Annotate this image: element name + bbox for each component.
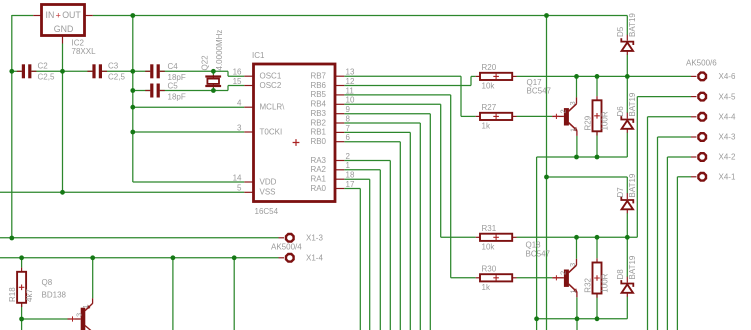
svg-text:100R: 100R	[601, 111, 610, 130]
svg-text:6: 6	[346, 133, 351, 142]
svg-text:C2,5: C2,5	[38, 73, 55, 82]
svg-text:D8: D8	[616, 269, 625, 280]
svg-text:Q8: Q8	[42, 278, 53, 287]
svg-text:Q18: Q18	[526, 241, 542, 250]
svg-text:10k: 10k	[482, 242, 496, 251]
svg-text:18pF: 18pF	[168, 93, 186, 102]
svg-text:BC547: BC547	[527, 87, 552, 96]
svg-text:4.0000MHz: 4.0000MHz	[215, 30, 224, 71]
svg-text:12: 12	[346, 77, 355, 86]
svg-text:BAT19: BAT19	[628, 13, 637, 37]
svg-text:OUT: OUT	[62, 10, 81, 20]
svg-text:BAT19: BAT19	[628, 92, 637, 116]
svg-text:VSS: VSS	[260, 188, 276, 197]
svg-text:R30: R30	[482, 264, 497, 273]
svg-text:3: 3	[568, 263, 577, 267]
svg-text:RA2: RA2	[310, 165, 326, 174]
svg-text:R32: R32	[584, 277, 593, 292]
svg-text:X4-4: X4-4	[719, 113, 736, 122]
svg-text:C4: C4	[168, 62, 179, 71]
svg-text:RB5: RB5	[310, 90, 326, 99]
svg-text:IC1: IC1	[252, 51, 265, 60]
svg-text:1: 1	[569, 289, 578, 293]
svg-text:X4-3: X4-3	[719, 133, 736, 142]
svg-text:X4-2: X4-2	[719, 153, 736, 162]
svg-text:RB1: RB1	[310, 128, 326, 137]
svg-text:C2,5: C2,5	[108, 73, 125, 82]
svg-text:X1-4: X1-4	[306, 254, 323, 263]
svg-text:IN: IN	[46, 10, 55, 20]
svg-text:T0CKI: T0CKI	[260, 127, 283, 136]
svg-text:D6: D6	[616, 106, 625, 117]
svg-text:D7: D7	[616, 187, 625, 198]
svg-text:VDD: VDD	[260, 177, 277, 186]
svg-text:Q22: Q22	[201, 55, 210, 71]
svg-text:13: 13	[346, 68, 355, 77]
svg-text:17: 17	[346, 180, 355, 189]
svg-text:9: 9	[346, 105, 351, 114]
svg-text:AK500/6: AK500/6	[686, 59, 717, 68]
svg-text:2: 2	[559, 271, 568, 275]
svg-text:BD138: BD138	[42, 291, 67, 300]
svg-text:16C54: 16C54	[255, 207, 279, 216]
svg-text:OSC1: OSC1	[260, 72, 282, 81]
svg-text:C2: C2	[38, 62, 49, 71]
svg-text:3: 3	[75, 313, 84, 317]
svg-text:X4-6: X4-6	[719, 72, 736, 81]
svg-text:AK500/4: AK500/4	[271, 243, 302, 252]
svg-text:BAT19: BAT19	[628, 173, 637, 197]
svg-text:BC547: BC547	[526, 250, 551, 259]
svg-text:16: 16	[233, 68, 242, 77]
svg-text:78XXL: 78XXL	[72, 47, 97, 56]
svg-text:4: 4	[237, 99, 242, 108]
svg-text:C3: C3	[108, 62, 119, 71]
svg-text:1: 1	[81, 304, 90, 308]
svg-text:3: 3	[568, 101, 577, 105]
svg-text:4k7: 4k7	[25, 289, 34, 302]
svg-text:18: 18	[346, 171, 355, 180]
svg-text:100R: 100R	[601, 273, 610, 292]
svg-text:1: 1	[569, 128, 578, 132]
svg-text:C5: C5	[168, 82, 179, 91]
svg-text:BAT19: BAT19	[628, 255, 637, 279]
svg-text:GND: GND	[54, 24, 74, 34]
svg-text:RB4: RB4	[310, 100, 326, 109]
svg-text:1: 1	[346, 161, 351, 170]
svg-text:15: 15	[233, 77, 242, 86]
svg-text:RA1: RA1	[310, 175, 326, 184]
svg-text:7: 7	[346, 124, 351, 133]
svg-text:1k: 1k	[482, 283, 491, 292]
svg-text:X1-3: X1-3	[306, 234, 323, 243]
svg-text:2: 2	[559, 109, 568, 113]
svg-text:RA3: RA3	[310, 156, 326, 165]
svg-text:RB3: RB3	[310, 109, 326, 118]
svg-text:2: 2	[346, 152, 351, 161]
svg-text:10: 10	[346, 96, 355, 105]
svg-text:RB7: RB7	[310, 72, 326, 81]
svg-text:R27: R27	[482, 103, 497, 112]
svg-text:14: 14	[233, 173, 242, 182]
svg-text:MCLR\: MCLR\	[260, 103, 286, 112]
svg-text:R29: R29	[584, 115, 593, 130]
svg-text:10k: 10k	[482, 81, 496, 90]
svg-text:5: 5	[237, 184, 242, 193]
svg-text:3: 3	[237, 123, 242, 132]
svg-text:X4-1: X4-1	[719, 173, 736, 182]
svg-text:8: 8	[346, 114, 351, 123]
svg-text:RB2: RB2	[310, 118, 326, 127]
svg-text:11: 11	[346, 86, 355, 95]
svg-text:1k: 1k	[482, 121, 491, 130]
svg-text:RA0: RA0	[310, 184, 326, 193]
svg-text:OSC2: OSC2	[260, 81, 282, 90]
svg-text:RB0: RB0	[310, 137, 326, 146]
svg-text:+: +	[56, 10, 61, 20]
svg-text:X4-5: X4-5	[719, 92, 736, 101]
svg-text:D5: D5	[616, 26, 625, 37]
svg-text:R20: R20	[482, 63, 497, 72]
svg-text:R18: R18	[8, 287, 17, 302]
svg-text:R31: R31	[482, 224, 497, 233]
svg-text:RB6: RB6	[310, 81, 326, 90]
